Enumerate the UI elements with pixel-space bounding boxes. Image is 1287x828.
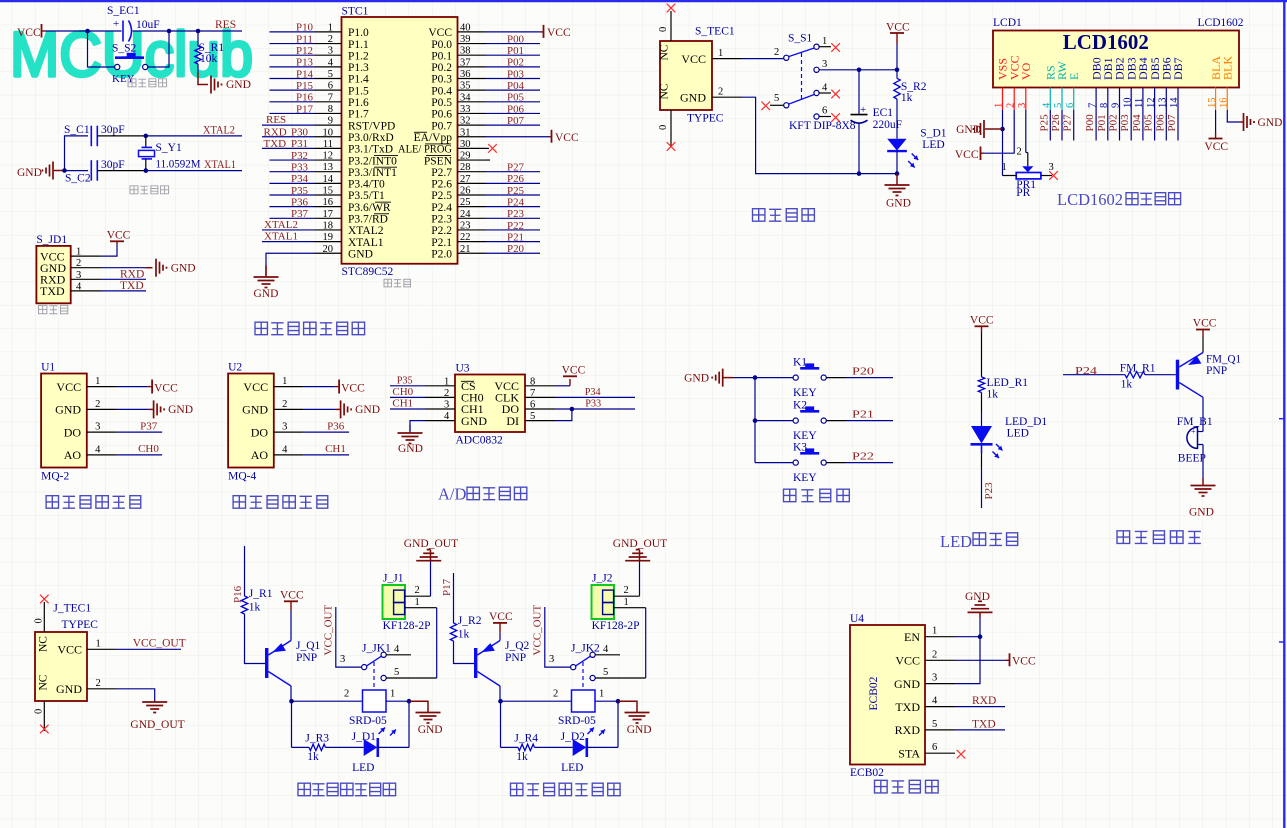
svg-text:P11: P11: [296, 33, 313, 45]
svg-text:S_JD1: S_JD1: [36, 234, 67, 246]
svg-text:P15: P15: [296, 80, 313, 92]
U3 pin5 wire to DO: [555, 409, 572, 421]
svg-text:TXD: TXD: [264, 138, 287, 150]
svg-text:P31: P31: [291, 138, 308, 150]
svg-text:J_D1: J_D1: [352, 731, 377, 743]
svg-text:TXD: TXD: [40, 284, 65, 298]
svg-text:GND: GND: [684, 373, 709, 385]
svg-text:GND: GND: [242, 403, 268, 417]
svg-text:P01: P01: [507, 45, 524, 57]
svg-text:P04: P04: [507, 80, 524, 92]
U3 pin2 wire CH0: [390, 396, 425, 398]
svg-text:0: 0: [34, 618, 45, 623]
svg-text:ALE/ PROG: ALE/ PROG: [398, 144, 452, 156]
wire VCC to R2: [896, 44, 898, 78]
junction U4 EN: [978, 634, 983, 639]
title 电源电路: [753, 209, 765, 221]
svg-text:1k: 1k: [307, 751, 319, 763]
comment 晶振电路 grey: [130, 186, 138, 194]
svg-text:VCC: VCC: [17, 27, 41, 39]
svg-text:P0.1: P0.1: [431, 50, 452, 62]
PR1 pin1 lead: [1003, 175, 1017, 177]
svg-text:S_Y1: S_Y1: [156, 142, 182, 154]
svg-text:LED: LED: [922, 139, 944, 151]
VCC power port U4: [1006, 659, 1010, 661]
U1 pin4 wire CH0: [117, 454, 163, 456]
svg-text:12: 12: [323, 151, 334, 162]
resistor J_R3 1k: [309, 744, 326, 750]
svg-text:P3.1/TxD: P3.1/TxD: [348, 144, 393, 156]
wire C2 row: [65, 170, 89, 172]
ground relay: [618, 701, 637, 712]
svg-text:P26: P26: [507, 173, 524, 185]
svg-text:VCC: VCC: [681, 52, 706, 66]
svg-text:S_C1: S_C1: [64, 124, 90, 136]
svg-text:3: 3: [822, 59, 827, 70]
svg-text:10uF: 10uF: [136, 19, 160, 31]
J_JK2 lever: [576, 656, 590, 666]
svg-text:1: 1: [282, 376, 287, 387]
svg-text:1: 1: [415, 597, 420, 608]
svg-text:TXD: TXD: [972, 719, 996, 731]
svg-text:13: 13: [1158, 98, 1169, 109]
svg-text:4: 4: [1042, 102, 1053, 108]
wire P17 down: [453, 573, 455, 623]
wire XTAL1 pin19: [262, 241, 315, 243]
svg-text:LCD1602: LCD1602: [1057, 190, 1123, 209]
GND wire pin20: [266, 253, 315, 274]
LCD data net wires down: [1049, 110, 1051, 141]
S_S1 lever 1-2: [789, 48, 814, 57]
svg-text:XTAL1: XTAL1: [348, 237, 384, 249]
svg-text:15: 15: [323, 186, 334, 197]
right net wires P27-P20: [486, 171, 540, 173]
svg-text:VCC: VCC: [1012, 655, 1036, 667]
svg-text:J_R1: J_R1: [249, 588, 273, 600]
svg-text:P03: P03: [507, 68, 524, 80]
svg-text:+: +: [1191, 427, 1196, 436]
svg-text:P3.7/RD: P3.7/RD: [348, 214, 388, 226]
svg-text:AO: AO: [64, 448, 82, 462]
svg-text:BLK: BLK: [1221, 56, 1235, 80]
svg-text:30: 30: [460, 139, 471, 150]
svg-text:GND: GND: [886, 198, 911, 210]
S_S1 contact 2: [784, 55, 789, 60]
svg-text:GND: GND: [348, 248, 373, 260]
svg-text:P0.0: P0.0: [431, 39, 452, 51]
svg-text:1: 1: [328, 22, 333, 33]
S_S1 contact 6 with cross: [814, 114, 819, 119]
svg-text:J_R2: J_R2: [458, 615, 482, 627]
svg-text:FM_Q1: FM_Q1: [1206, 354, 1241, 366]
svg-text:6: 6: [822, 106, 827, 117]
MCU right pin stubs + numbers: [458, 31, 487, 33]
svg-text:1: 1: [718, 48, 723, 59]
wire LED to right riser: [587, 746, 618, 748]
svg-text:P1.3: P1.3: [348, 62, 369, 74]
svg-text:KEY: KEY: [793, 387, 817, 399]
svg-text:GND: GND: [418, 724, 443, 736]
svg-text:S_D1: S_D1: [920, 128, 946, 140]
J_JK2 contact 4: [590, 652, 595, 657]
svg-text:P24: P24: [1075, 365, 1098, 377]
svg-text:11: 11: [323, 139, 333, 150]
comment 下载口 grey: [39, 305, 47, 313]
wire LED to right riser: [378, 746, 409, 748]
wire J_R1 to base: [245, 614, 266, 664]
svg-text:P2.4: P2.4: [431, 202, 452, 214]
MCU left pin stubs + numbers: [315, 31, 342, 33]
wire VCC to emitter: [1202, 337, 1204, 353]
svg-text:10: 10: [323, 127, 334, 138]
wire VCC to emitter: [499, 633, 501, 641]
LCD pin stubs: [1002, 88, 1004, 111]
svg-text:VCC: VCC: [1204, 141, 1228, 153]
svg-text:KFT DIP-8X8: KFT DIP-8X8: [789, 120, 856, 132]
capacitor EC1 220uF polarized: [858, 70, 860, 115]
svg-text:4: 4: [76, 281, 82, 292]
svg-text:VCC: VCC: [154, 383, 178, 395]
transistor J_Q2 PNP: [474, 648, 477, 678]
svg-text:3: 3: [282, 422, 287, 433]
svg-text:+: +: [113, 18, 119, 30]
svg-text:P22: P22: [852, 451, 874, 463]
svg-text:NC: NC: [659, 83, 671, 99]
svg-text:J_J1: J_J1: [383, 573, 404, 585]
svg-text:37: 37: [460, 57, 471, 68]
wire P16 down: [244, 546, 246, 596]
wire LED to gnd rail: [896, 151, 898, 174]
svg-text:P36: P36: [291, 196, 308, 208]
pin30 stub with no-ERC cross: [486, 147, 489, 149]
svg-text:GND: GND: [680, 91, 706, 105]
svg-text:P36: P36: [327, 421, 345, 433]
svg-text:16: 16: [1219, 98, 1230, 109]
connector S_TEC1 TYPEC body: [660, 41, 712, 110]
wire coil right to junction: [386, 700, 409, 702]
buzzer FM_B1: [1187, 427, 1198, 448]
dashed link J_JK2: [582, 662, 584, 689]
svg-text:P25: P25: [1038, 114, 1050, 132]
svg-text:26: 26: [460, 186, 471, 197]
U3 CS overline: [461, 380, 474, 382]
svg-text:TXD: TXD: [120, 280, 144, 292]
svg-text:SRD-05: SRD-05: [558, 715, 596, 727]
U4 pin5 wire TXD: [955, 729, 1005, 731]
svg-text:LED_D1: LED_D1: [1005, 416, 1047, 428]
svg-text:GND: GND: [226, 79, 251, 91]
svg-text:GND: GND: [627, 724, 652, 736]
svg-text:S_S2: S_S2: [112, 43, 137, 55]
svg-text:U4: U4: [850, 613, 864, 625]
svg-text:P30: P30: [291, 127, 308, 139]
svg-text:15: 15: [1207, 98, 1218, 109]
wire buzzer to ground: [1202, 445, 1204, 479]
crystal S_Y1 11.0592M: [145, 136, 147, 148]
resistor J_R4 1k: [518, 744, 535, 750]
svg-text:4: 4: [95, 444, 101, 455]
ground relay: [409, 701, 428, 712]
svg-text:J_D2: J_D2: [561, 731, 586, 743]
ground LCD right: [1243, 113, 1245, 131]
svg-text:1: 1: [932, 626, 937, 637]
svg-text:LED: LED: [561, 762, 583, 774]
svg-text:STA: STA: [898, 746, 920, 760]
S_JD1 pin2 wire to GND: [101, 267, 146, 269]
wire VCC to emitter: [290, 611, 292, 641]
svg-text:VCC: VCC: [895, 654, 920, 668]
right net wires P00-P07: [486, 43, 540, 45]
resistor FM_R1 1k: [1125, 372, 1145, 378]
svg-text:RXD: RXD: [895, 723, 921, 737]
svg-text:VCC: VCC: [107, 229, 131, 241]
U3 pin1 wire P35: [390, 385, 425, 387]
svg-text:GND: GND: [1189, 507, 1214, 519]
J_J1 pin1: [405, 607, 437, 609]
S_TEC1 bottom mechanical pin 0: [670, 110, 672, 146]
svg-text:VCC: VCC: [970, 315, 994, 327]
svg-text:17: 17: [323, 209, 334, 220]
svg-text:P2.1: P2.1: [431, 237, 452, 249]
sensor U2 body: [228, 374, 274, 468]
junction rail LED: [895, 171, 900, 176]
svg-text:RXD: RXD: [264, 127, 287, 139]
svg-text:P05: P05: [507, 92, 524, 104]
svg-text:P17: P17: [441, 578, 453, 596]
svg-text:1: 1: [994, 103, 1005, 108]
svg-text:2: 2: [1017, 147, 1022, 158]
junction DO-DI: [570, 407, 575, 412]
U4 pin stubs and numbers: [925, 636, 955, 638]
svg-text:TXD: TXD: [895, 700, 920, 714]
key K3 wire P22: [827, 462, 846, 464]
S_JD1 pin4 wire TXD: [101, 290, 146, 292]
LED S_D1: [887, 139, 906, 151]
ground buzzer: [1202, 478, 1204, 485]
svg-text:GND: GND: [56, 682, 82, 696]
svg-text:3: 3: [444, 400, 449, 411]
svg-text:P06: P06: [1154, 114, 1166, 132]
svg-text:3: 3: [76, 270, 81, 281]
svg-text:VCC_OUT: VCC_OUT: [133, 638, 186, 650]
U3 pin7 wire P34: [555, 396, 635, 398]
svg-text:2: 2: [774, 47, 779, 58]
svg-text:P2.2: P2.2: [431, 225, 452, 237]
svg-text:P37: P37: [140, 421, 158, 433]
svg-text:4: 4: [444, 411, 450, 422]
svg-text:P1.6: P1.6: [348, 97, 369, 109]
svg-text:2: 2: [624, 585, 629, 596]
resistor J_R1 1k: [241, 596, 247, 614]
svg-text:5: 5: [603, 667, 608, 678]
svg-text:1k: 1k: [1121, 378, 1133, 390]
svg-text:1k: 1k: [458, 629, 470, 641]
wire EN junction down to GND pin: [955, 637, 980, 684]
svg-text:2: 2: [415, 585, 420, 596]
svg-text:6: 6: [530, 400, 535, 411]
wire J_R3 to LED: [326, 746, 364, 748]
ground S_JD1: [155, 259, 157, 277]
junction XTAL2 node: [144, 134, 149, 139]
ground GND_OUT J_J2: [639, 562, 641, 597]
left net wires P10-P17: [270, 31, 315, 33]
wire S_S2 left leg: [88, 31, 115, 67]
svg-text:FM_R1: FM_R1: [1120, 363, 1156, 375]
svg-text:3: 3: [1017, 103, 1028, 108]
svg-text:GND: GND: [398, 443, 423, 455]
svg-text:LED_R1: LED_R1: [987, 377, 1029, 389]
key K2 button: [755, 420, 793, 422]
sensor U1 body: [41, 374, 87, 468]
svg-text:P06: P06: [507, 103, 524, 115]
VCC power port U1: [151, 380, 153, 394]
wire collector to coil rail: [499, 686, 501, 701]
svg-text:VO: VO: [1019, 62, 1033, 80]
svg-text:P25: P25: [507, 185, 524, 197]
svg-text:8: 8: [1099, 103, 1110, 108]
wire VCC_OUT down: [336, 607, 362, 667]
svg-text:P00: P00: [1084, 114, 1096, 132]
coil arrows: [379, 728, 386, 735]
svg-text:BEEP: BEEP: [1178, 453, 1206, 465]
svg-text:P02: P02: [1108, 114, 1120, 131]
resistor S_R2 1k: [894, 78, 900, 99]
S_JD1 pin stubs and numbers: [71, 255, 101, 257]
svg-text:K2: K2: [793, 400, 807, 412]
svg-text:U2: U2: [228, 362, 242, 374]
junction EC1 top: [857, 68, 862, 73]
svg-text:1: 1: [76, 247, 81, 258]
U2 pin1 wire VCC: [304, 386, 335, 388]
svg-text:RXD: RXD: [972, 695, 996, 707]
svg-text:LCD1602: LCD1602: [1063, 30, 1149, 54]
LCD1 body: [993, 31, 1239, 88]
svg-text:VCC: VCC: [57, 643, 82, 657]
svg-text:P2.7: P2.7: [431, 167, 452, 179]
svg-text:CH0: CH0: [392, 386, 413, 398]
title 继电器控制电路: [511, 783, 523, 795]
wire rail to coil: [501, 700, 572, 702]
LED LED_D1: [971, 426, 992, 444]
svg-text:J_J2: J_J2: [592, 573, 613, 585]
svg-text:J_R3: J_R3: [305, 733, 329, 745]
svg-text:P0.6: P0.6: [431, 109, 452, 121]
junction coil right: [616, 699, 621, 704]
sheet border right: [1283, 0, 1285, 828]
svg-text:38: 38: [460, 46, 471, 57]
net wire P24: [1063, 374, 1125, 376]
svg-text:XTAL2: XTAL2: [203, 125, 235, 137]
svg-text:39: 39: [460, 34, 471, 45]
svg-text:4: 4: [932, 696, 938, 707]
svg-text:11.0592M: 11.0592M: [156, 159, 201, 171]
junction R2 top: [895, 68, 900, 73]
svg-text:LCD1: LCD1: [993, 17, 1022, 29]
svg-text:GND: GND: [461, 414, 487, 428]
svg-text:TYPEC: TYPEC: [62, 619, 99, 631]
junction reset B: [167, 29, 172, 34]
wire VCC_OUT down: [545, 607, 571, 667]
junction VSS gnd: [1000, 127, 1005, 132]
svg-text:10k: 10k: [200, 53, 218, 65]
svg-text:220uF: 220uF: [873, 119, 902, 131]
svg-text:1: 1: [1002, 162, 1007, 173]
svg-text:P07: P07: [507, 115, 524, 127]
svg-text:EC1: EC1: [873, 107, 894, 119]
svg-text:P32: P32: [291, 150, 308, 162]
svg-text:CH1: CH1: [392, 398, 413, 410]
svg-text:P2.5: P2.5: [431, 190, 452, 202]
svg-text:P2.0: P2.0: [431, 248, 452, 260]
svg-text:P3.4/T0: P3.4/T0: [348, 179, 385, 191]
svg-text:P3.3/INT1: P3.3/INT1: [348, 167, 397, 179]
svg-text:2: 2: [932, 649, 937, 660]
relay coil J_JK2 SRD-05: [572, 690, 596, 712]
LED J_D2: [573, 739, 587, 756]
svg-text:P3.0/RxD: P3.0/RxD: [348, 132, 394, 144]
svg-text:21: 21: [460, 244, 471, 255]
svg-text:20: 20: [323, 244, 334, 255]
svg-text:CH1: CH1: [325, 443, 346, 455]
svg-text:AO: AO: [251, 448, 269, 462]
wire R2 to LED: [896, 99, 898, 139]
svg-text:1: 1: [624, 597, 629, 608]
keys left rail: [754, 378, 756, 463]
svg-text:TYPEC: TYPEC: [687, 112, 724, 124]
svg-text:16: 16: [323, 197, 334, 208]
key K1 wire P20: [827, 377, 846, 379]
wire coil right to junction: [595, 700, 618, 702]
S_TEC1 pin2 stub: [712, 96, 742, 98]
title 蓝牙模块: [875, 780, 888, 793]
svg-text:VCC: VCC: [489, 611, 513, 623]
ground U2: [340, 400, 342, 418]
left loop wire: [291, 701, 293, 747]
title 单片机最小系统: [255, 322, 267, 334]
svg-text:S_C2: S_C2: [65, 173, 91, 185]
svg-text:P1.4: P1.4: [348, 74, 369, 86]
LED J_D1: [364, 739, 378, 756]
junction coil left: [498, 699, 503, 704]
svg-text:GND: GND: [168, 404, 193, 416]
svg-text:1: 1: [599, 689, 604, 700]
svg-text:VCC: VCC: [547, 27, 571, 39]
svg-text:GND: GND: [355, 404, 380, 416]
svg-text:P20: P20: [507, 243, 524, 255]
svg-text:KF128-2P: KF128-2P: [592, 620, 640, 632]
U2 pin2 wire GND: [304, 408, 336, 410]
junction key2: [753, 418, 758, 423]
svg-text:PNP: PNP: [1206, 365, 1227, 377]
wire XTAL2 net: [146, 135, 242, 137]
svg-text:22: 22: [460, 232, 471, 243]
title 按键电路: [784, 489, 796, 501]
svg-text:36: 36: [460, 69, 471, 80]
svg-text:12: 12: [1146, 98, 1157, 109]
svg-text:LED: LED: [940, 532, 972, 551]
svg-text:33: 33: [460, 104, 471, 115]
wire contact5 riser to J_J2 pin1: [645, 608, 647, 678]
junction reset C: [196, 29, 201, 34]
svg-text:VCC_OUT: VCC_OUT: [532, 604, 544, 655]
svg-text:0: 0: [658, 125, 669, 130]
svg-text:PSEN: PSEN: [424, 155, 453, 167]
title 甲烷检测模块: [233, 496, 245, 508]
ground GND_OUT J_TEC1: [154, 701, 156, 703]
svg-text:P23: P23: [983, 482, 995, 500]
svg-text:9: 9: [1111, 103, 1122, 108]
svg-text:P0.7: P0.7: [431, 120, 452, 132]
